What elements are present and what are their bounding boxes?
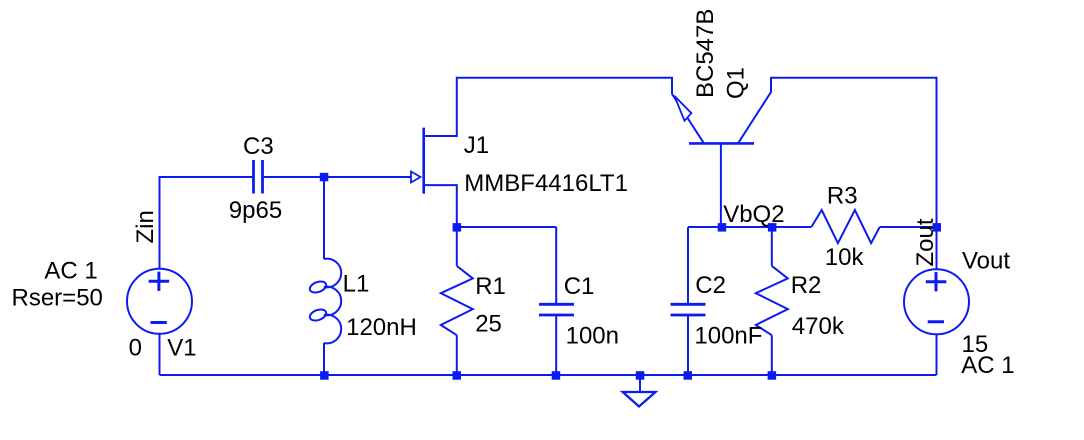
svg-text:Rser=50: Rser=50 bbox=[12, 285, 103, 312]
svg-text:25: 25 bbox=[475, 311, 502, 338]
svg-text:V1: V1 bbox=[167, 335, 196, 362]
svg-text:C1: C1 bbox=[564, 273, 595, 300]
svg-text:Zin: Zin bbox=[132, 210, 159, 243]
svg-text:0: 0 bbox=[129, 335, 142, 362]
svg-text:R3: R3 bbox=[827, 183, 858, 210]
svg-text:100nF: 100nF bbox=[694, 322, 762, 349]
svg-text:9p65: 9p65 bbox=[229, 197, 282, 224]
svg-text:Q1: Q1 bbox=[723, 67, 750, 99]
svg-text:R1: R1 bbox=[475, 273, 506, 300]
svg-text:AC 1: AC 1 bbox=[44, 258, 97, 285]
svg-text:Zout: Zout bbox=[912, 218, 939, 266]
svg-text:AC 1: AC 1 bbox=[961, 352, 1014, 379]
svg-text:100n: 100n bbox=[566, 322, 619, 349]
svg-text:10k: 10k bbox=[825, 244, 865, 271]
svg-text:VbQ2: VbQ2 bbox=[723, 201, 784, 228]
svg-text:120nH: 120nH bbox=[346, 314, 417, 341]
svg-text:R2: R2 bbox=[791, 272, 822, 299]
svg-text:BC547B: BC547B bbox=[692, 9, 719, 98]
svg-text:MMBF4416LT1: MMBF4416LT1 bbox=[464, 170, 628, 197]
svg-text:470k: 470k bbox=[792, 313, 845, 340]
svg-text:Vout: Vout bbox=[962, 248, 1010, 275]
svg-text:C3: C3 bbox=[243, 133, 274, 160]
svg-text:C2: C2 bbox=[695, 272, 726, 299]
svg-text:J1: J1 bbox=[464, 132, 489, 159]
svg-text:L1: L1 bbox=[343, 270, 370, 297]
